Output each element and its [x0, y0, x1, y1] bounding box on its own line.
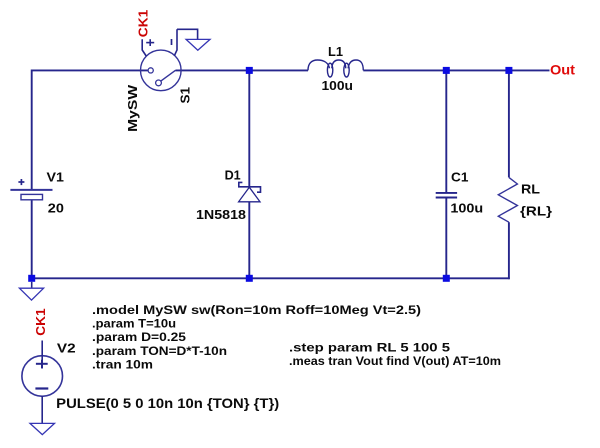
- inductor L1 winding: [308, 60, 363, 77]
- resistor RL zigzag: [498, 177, 517, 222]
- wire D1 branch lower: [248, 202, 250, 278]
- voltage source V1 battery case: [21, 194, 43, 199]
- switch control wire minus side: [174, 29, 177, 56]
- svg-text:PULSE(0 5 0 10n 10n {TON} {T}): PULSE(0 5 0 10n 10n {TON} {T}): [56, 396, 279, 411]
- svg-text:V1: V1: [47, 170, 64, 185]
- svg-text:Out: Out: [550, 61, 575, 77]
- svg-text:.param TON=D*T-10n: .param TON=D*T-10n: [92, 344, 227, 358]
- capacitor C1 bottom plate: [436, 197, 457, 199]
- wire C1 branch lower: [445, 198, 447, 279]
- svg-text:S1: S1: [177, 87, 192, 104]
- ground symbol below V2: [30, 423, 55, 434]
- wire D1 branch upper: [248, 70, 250, 186]
- svg-text:.step param RL 5 100 5: .step param RL 5 100 5: [289, 340, 450, 354]
- switch control wire plus side: [142, 39, 146, 56]
- diode D1 cathode bar with schottky hooks: [239, 182, 261, 192]
- svg-text:.model MySW sw(Ron=10m Roff=1: .model MySW sw(Ron=10m Roff=10Meg Vt=2.5…: [92, 303, 421, 317]
- wire left branch upper (V1 top): [31, 70, 33, 190]
- svg-text:.tran 10m: .tran 10m: [92, 358, 153, 372]
- junction top at RL: [505, 67, 512, 74]
- junction bottom at D1: [246, 275, 253, 282]
- wire top rail left segment: [32, 69, 148, 71]
- switch S1 body circle: [141, 50, 182, 91]
- wire left branch lower (V1 bottom): [31, 200, 33, 278]
- wire elbow to ground: [177, 29, 198, 39]
- svg-text:.param D=0.25: .param D=0.25: [92, 330, 186, 344]
- switch S1 pivot circle: [156, 80, 162, 86]
- svg-text:L1: L1: [328, 44, 343, 59]
- svg-text:V2: V2: [57, 340, 76, 355]
- svg-text:100u: 100u: [450, 201, 483, 216]
- switch plus sign: [146, 39, 154, 46]
- switch minus sign (rotated dash): [171, 39, 173, 45]
- wire bottom rail: [32, 277, 510, 279]
- svg-text:CK1: CK1: [136, 10, 151, 38]
- wire top rail right segment: [363, 69, 549, 71]
- voltage source V1 battery top plate: [10, 189, 52, 191]
- svg-text:.param T=10u: .param T=10u: [92, 317, 176, 331]
- svg-text:20: 20: [48, 201, 64, 216]
- wire V2 top stub: [41, 341, 43, 369]
- svg-text:.meas tran Vout find V(out) AT: .meas tran Vout find V(out) AT=10m: [289, 354, 501, 368]
- wire C1 branch upper: [445, 70, 447, 192]
- V1 plus sign: [18, 179, 24, 185]
- svg-text:D1: D1: [225, 168, 241, 183]
- svg-text:C1: C1: [451, 170, 468, 185]
- junction bottom left: [28, 275, 35, 282]
- svg-text:RL: RL: [521, 182, 540, 197]
- junction top at D1: [246, 67, 253, 74]
- wire RL branch lower: [508, 222, 510, 279]
- ground symbol below V1: [31, 282, 33, 288]
- svg-text:100u: 100u: [322, 78, 354, 93]
- switch S1 lever: [161, 70, 176, 81]
- wire V2 bottom stub: [41, 396, 43, 424]
- V2 plus sign: [36, 360, 48, 369]
- svg-text:MySW: MySW: [125, 84, 140, 132]
- capacitor C1 top plate: [436, 192, 457, 194]
- switch S1 left pin circle: [148, 68, 153, 73]
- V2 minus sign: [35, 387, 48, 389]
- wire RL branch upper: [508, 70, 510, 177]
- junction top at C1: [443, 67, 450, 74]
- wire top rail middle segment: [176, 69, 309, 71]
- junction bottom at C1: [443, 275, 450, 282]
- svg-text:CK1: CK1: [33, 308, 48, 336]
- svg-text:1N5818: 1N5818: [196, 207, 246, 222]
- svg-text:{RL}: {RL}: [520, 204, 552, 219]
- diode D1 triangle: [239, 187, 260, 202]
- ground symbol at switch: [186, 39, 210, 50]
- voltage source V2 circle: [22, 356, 63, 397]
